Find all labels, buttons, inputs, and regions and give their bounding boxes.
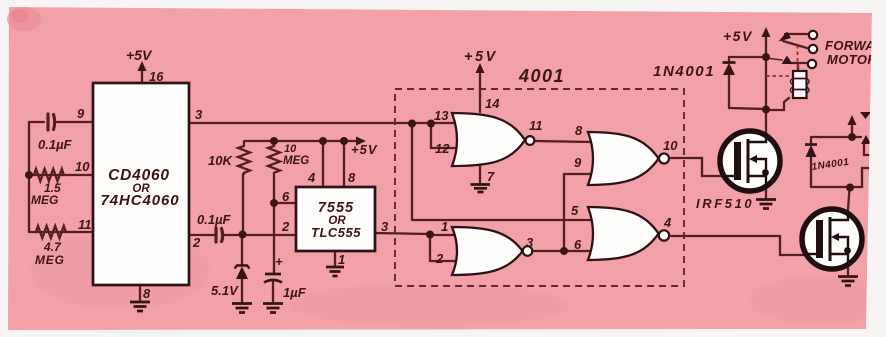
junction dot Q2 source/body <box>844 247 851 254</box>
+5V arrowhead (right) <box>762 27 771 37</box>
wire dot to right stub upper <box>852 136 861 138</box>
MOSFET Q1 channel bar <box>747 139 750 183</box>
scan smudge top-left <box>7 7 41 31</box>
ground symbol 1uF <box>263 304 283 313</box>
svg-text:10: 10 <box>75 159 90 174</box>
ground symbol 555 pin1 <box>326 267 344 276</box>
wire 10K bottom to pin2 node <box>242 174 244 235</box>
capacitor 1uF bottom curved plate <box>264 280 282 283</box>
junction dot rail/10MEG <box>270 137 278 145</box>
MOSFET Q2 gate bar <box>816 220 823 258</box>
wire pin11 to CD4060 <box>29 231 94 233</box>
wire left vertical bus <box>28 122 30 232</box>
MOSFET Q2 source stub <box>830 254 848 266</box>
wire pin5 long horizontal <box>412 219 592 221</box>
svg-text:4: 4 <box>663 215 672 230</box>
diode D1 top branch <box>729 56 766 58</box>
zener 5.1V top lead <box>241 235 243 265</box>
diode D1 leads <box>728 57 730 108</box>
svg-text:4001: 4001 <box>518 66 565 86</box>
motor M1 top lead <box>797 65 799 71</box>
svg-text:MEG: MEG <box>35 253 65 267</box>
svg-text:8: 8 <box>575 123 583 138</box>
switch wiper 2 arm from node <box>766 58 782 60</box>
svg-text:11: 11 <box>529 118 543 133</box>
wire pin6 to 555 <box>274 202 296 204</box>
junction dot 555out/pin2 <box>426 231 434 239</box>
resistor 4.7 MEG zigzag <box>36 226 66 238</box>
up arrow stem (reverse +V) <box>851 122 853 137</box>
junction dot drain rail <box>762 106 770 114</box>
ground stem Q2 source <box>847 268 849 276</box>
svg-text:10K: 10K <box>208 153 233 168</box>
scan white edge right <box>866 0 886 337</box>
diode D1 bottom branch to drain rail <box>729 108 766 109</box>
svg-text:6: 6 <box>282 189 290 204</box>
ground stem CD4060 pin8 <box>139 285 141 301</box>
junction dot left bus / 1.5MEG <box>25 171 33 179</box>
NOR gate U2d output bubble 4 <box>659 230 669 240</box>
motor M1 side bumps <box>791 79 796 84</box>
svg-text:4: 4 <box>307 170 316 185</box>
switch contact circle 1 <box>809 31 817 39</box>
svg-text:3: 3 <box>195 107 203 122</box>
capacitor C 0.1uF plates (pin2) <box>216 228 223 242</box>
zener diode 5.1V bar <box>235 266 250 269</box>
wire pin12 jog <box>431 124 460 148</box>
ground symbol Q2 <box>838 277 858 286</box>
switch contact circle 3 <box>808 60 816 68</box>
NOR gate U2a output bubble 11 <box>526 136 535 145</box>
svg-text:MOTOR: MOTOR <box>827 52 877 67</box>
motor M1 inner lines <box>793 79 807 90</box>
MOSFET Q1 drain stub <box>748 133 766 142</box>
resistor 10 MEG zigzag <box>268 141 280 174</box>
wire 10MEG bottom to pin6 node <box>273 174 275 203</box>
+5V arrowhead gate U2a <box>476 63 485 73</box>
capacitor C 0.1uF plates (pin9) <box>48 114 55 130</box>
junction dot +5V/diode1/switch <box>762 53 770 61</box>
svg-text:12: 12 <box>435 141 450 156</box>
wire output3 node up to pin9 <box>564 174 592 251</box>
svg-text:5: 5 <box>571 203 579 218</box>
svg-text:8: 8 <box>348 170 356 185</box>
junction dot pin6 node <box>270 199 278 207</box>
svg-text:7555: 7555 <box>318 200 354 216</box>
svg-text:13: 13 <box>434 108 449 123</box>
+5V arrowhead above CD4060 <box>138 61 147 71</box>
zener diode 5.1V triangle <box>236 267 248 280</box>
ground symbol Q1 <box>756 200 776 209</box>
wire gate U2a out 11 to gate U2c pin8 <box>535 141 592 142</box>
NOR gate U2c body <box>588 132 659 185</box>
wire pin6 node down to 1uF <box>273 203 275 273</box>
svg-text:1µF: 1µF <box>283 285 307 300</box>
svg-text:7: 7 <box>487 169 495 184</box>
ground stem 555 pin1 <box>334 251 336 266</box>
IC U1 CD4060 box <box>93 83 189 285</box>
diode D2 top branch <box>811 136 852 138</box>
svg-text:4.7: 4.7 <box>43 240 62 254</box>
capacitor 1uF top plate <box>265 273 281 276</box>
junction dot arrow/diode2 <box>848 133 856 141</box>
svg-text:9: 9 <box>77 106 85 121</box>
diode D2 1N4001 triangle <box>806 145 817 157</box>
switch arrowhead wiper 2 <box>782 56 793 65</box>
svg-text:3: 3 <box>381 219 389 234</box>
+5V rail over 555 <box>244 140 359 142</box>
dashed box 4001 <box>395 89 684 286</box>
MOSFET Q1 source stub <box>748 176 766 188</box>
junction dot out3/pin9 <box>560 247 568 255</box>
MOSFET Q2 gate lead inside <box>804 253 816 255</box>
ground symbol zener <box>232 304 252 313</box>
wire gate U2d out 4 to Q2 gate <box>671 236 804 255</box>
diode D2 1N4001 bar <box>805 143 817 146</box>
MOSFET Q2 channel bar <box>829 217 832 261</box>
wire 555 out to gate U2b pin1 <box>430 234 460 235</box>
junction dot diode2/drain2 <box>846 184 854 192</box>
diode D1 1N4001 bar <box>723 61 736 64</box>
svg-text:0.1µF: 0.1µF <box>38 137 73 152</box>
resistor 1.5 MEG zigzag <box>34 169 64 181</box>
junction dot Q1 source/body <box>762 169 769 176</box>
wire pin9 right segment to CD4060 <box>57 121 94 123</box>
NOR gate U2c output bubble 10 <box>659 154 669 164</box>
svg-text:MEG: MEG <box>283 155 309 167</box>
switch contact circle 2 <box>809 45 817 53</box>
wire 555 pin4 drop <box>322 141 324 188</box>
wire CD4060 pin3 to gate U2a inputs <box>190 122 460 124</box>
diode D2 leads <box>810 137 812 187</box>
junction dot pin2 node <box>239 231 247 239</box>
svg-text:3: 3 <box>526 235 534 250</box>
MOSFET Q1 gate bar <box>734 142 741 180</box>
switch arrowhead wiper 1 <box>779 32 792 42</box>
svg-text:+5V: +5V <box>351 142 378 157</box>
svg-text:11: 11 <box>78 217 92 232</box>
svg-text:+5V: +5V <box>464 49 498 65</box>
svg-text:FORWA: FORWA <box>825 38 875 53</box>
svg-text:+: + <box>275 254 283 269</box>
svg-text:+5V: +5V <box>126 47 153 63</box>
gang dashed link horizontal <box>766 75 792 77</box>
wire pin9 left segment <box>29 121 44 123</box>
wire Q2 drain up <box>848 188 850 210</box>
svg-text:CD4060: CD4060 <box>108 167 170 184</box>
NOR gate U2b output bubble 3 <box>523 246 533 256</box>
capacitor 1uF bottom lead <box>272 281 274 303</box>
IC U3 555 box <box>296 187 375 251</box>
MOSFET Q1 body arrowhead <box>749 155 757 163</box>
junction dot rail/pin4 <box>319 137 327 145</box>
svg-text:IRF510: IRF510 <box>696 196 754 211</box>
wire gate U2c out 10 to Q1 gate <box>671 158 722 176</box>
MOSFET Q2 drain stub <box>830 211 848 220</box>
svg-text:5.1V: 5.1V <box>211 283 239 298</box>
MOSFET Q1 circle <box>720 131 780 191</box>
svg-text:6: 6 <box>574 237 582 252</box>
svg-text:74HC4060: 74HC4060 <box>101 192 180 209</box>
motor M1 body rect <box>793 71 807 98</box>
junction dot rail/pin8 <box>340 137 348 145</box>
diode D2 bottom branch <box>811 186 850 188</box>
MOSFET Q1 gate lead inside <box>722 175 734 177</box>
svg-text:1: 1 <box>338 252 345 267</box>
wire CD4060 pin2 out <box>190 234 214 236</box>
svg-text:16: 16 <box>149 69 164 84</box>
diode D1 1N4001 triangle <box>723 63 735 75</box>
svg-text:MEG: MEG <box>31 193 58 207</box>
MOSFET Q2 body arrowhead <box>831 233 839 241</box>
NOR gate U2a body <box>452 113 525 166</box>
zener 5.1V bottom lead <box>241 279 243 303</box>
switch wiper line to contact 1 <box>785 33 807 35</box>
ground symbol CD4060 pin8 <box>130 302 150 311</box>
svg-text:1N4001: 1N4001 <box>653 63 715 80</box>
wire drain2 node right stub <box>850 168 872 187</box>
svg-text:2: 2 <box>281 219 290 234</box>
MOSFET Q2 body arrow line <box>835 237 848 254</box>
wire +5V vertical / Q1 drain <box>765 34 767 133</box>
resistor 10K zigzag <box>238 142 250 174</box>
svg-text:10: 10 <box>284 143 297 155</box>
NOR gate U2d body <box>588 207 659 260</box>
junction dot pin3 wire / pin5 vertical <box>408 120 416 128</box>
wire vertical to pin5 <box>411 124 413 220</box>
+5V arrow stem above CD4060 <box>141 68 143 82</box>
scan white edge bottom <box>0 329 886 337</box>
up arrow head (reverse +V) <box>848 115 857 125</box>
ground stem gate U2a pin7 <box>479 165 481 184</box>
wire gate U2a +5V pin14 stem <box>479 70 481 112</box>
ground stem Q1 source <box>765 190 767 199</box>
arrow down triangle (cut symbol) <box>860 112 871 119</box>
svg-text:+5V: +5V <box>723 28 753 44</box>
NOR gate U2b body <box>452 227 523 275</box>
svg-text:TLC555: TLC555 <box>311 225 361 240</box>
switch wiper 2 line to contact 3 <box>791 62 806 64</box>
switch arm diagonal to contact 2 <box>783 41 807 48</box>
svg-text:8: 8 <box>143 286 151 301</box>
ground symbol gate U2a pin7 <box>471 185 491 193</box>
wire pin2 jog gate U2b <box>430 235 460 261</box>
wire gate U2b out 3 to gate U2d pin6 <box>534 250 592 252</box>
MOSFET Q2 circle <box>802 209 862 269</box>
wire 555 pin8 drop <box>343 141 345 188</box>
+5V rail arrowhead <box>356 137 366 146</box>
svg-text:14: 14 <box>485 96 500 111</box>
junction dot pin13/pin12 <box>427 120 435 128</box>
svg-text:2: 2 <box>192 235 201 250</box>
wire pin10 to CD4060 <box>29 174 94 176</box>
MOSFET Q1 body arrow line <box>753 159 766 176</box>
arrow up triangle (right edge) <box>861 135 871 144</box>
svg-text:0.1µF: 0.1µF <box>197 212 232 227</box>
svg-text:1: 1 <box>441 219 448 234</box>
svg-text:2: 2 <box>435 251 444 266</box>
wire 555 pin3 output <box>375 233 430 234</box>
wire pin2 to 555 pin2 <box>224 234 296 236</box>
motor M1 bottom lead <box>766 98 789 110</box>
svg-text:9: 9 <box>574 155 582 170</box>
svg-text:10: 10 <box>663 138 678 153</box>
switch gang dashed link <box>797 45 799 70</box>
arrow2 stem and stub <box>864 144 872 155</box>
